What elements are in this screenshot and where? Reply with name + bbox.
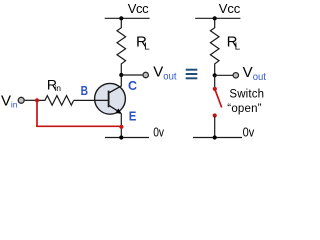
svg-text:in: in (11, 100, 18, 110)
wire base lead into Q1 (74, 99, 109, 101)
terminal Vout (right) (233, 73, 238, 78)
svg-text:L: L (144, 42, 150, 53)
label Vin (1, 92, 18, 109)
wire Vcc rail (right circuit) (195, 17, 240, 19)
svg-text:V: V (153, 64, 163, 81)
svg-text:out: out (253, 72, 266, 83)
resistor RL (left) (117, 18, 126, 75)
junction emitter / 0v rail (left) (119, 135, 123, 139)
junction RL bottom / Vout tap (left) (119, 73, 123, 77)
node red at emitter wire (119, 125, 123, 129)
svg-text:V: V (243, 64, 253, 81)
wire Vcc rail (left circuit) (105, 17, 150, 19)
value label Rin (47, 76, 61, 93)
svg-text:0v: 0v (153, 125, 164, 140)
svg-text:in: in (54, 83, 61, 93)
svg-text:Vcc: Vcc (219, 1, 241, 16)
label Vout (left) (153, 64, 177, 83)
wire tap to Vout terminal (right) (215, 74, 233, 76)
junction RL bottom / Vout tap (right) (213, 73, 217, 77)
wire 0v rail (right) (193, 137, 242, 139)
label Switch "open" (227, 89, 264, 115)
wire collector to Vout tap (120, 75, 122, 86)
terminal Vout (left) (143, 72, 148, 77)
svg-text:Switch: Switch (229, 89, 264, 101)
svg-text:0v: 0v (243, 125, 255, 140)
wire emitter to 0v rail (120, 114, 122, 138)
node input junction (red) (35, 98, 39, 102)
resistor Rin (37, 96, 74, 106)
wire tap to Vout terminal (left) (121, 74, 143, 76)
switch S1 "open" (213, 87, 222, 118)
svg-text:V: V (1, 92, 11, 109)
label Vout (right) (243, 64, 267, 83)
wire Vin terminal to input node (24, 99, 37, 101)
wire switch bottom to 0v rail (right) (214, 117, 216, 138)
svg-text:E: E (129, 109, 137, 124)
value label RL (right) (227, 33, 241, 52)
value label RL (left) (136, 33, 150, 52)
wire 0v rail (left) (105, 137, 149, 139)
equivalence symbol (186, 70, 198, 79)
junction switch / 0v rail (right) (213, 135, 217, 139)
terminal Vin (18, 97, 24, 103)
svg-text:out: out (163, 71, 176, 82)
svg-text:L: L (235, 42, 241, 53)
wire red: bottom run to emitter (36, 125, 121, 127)
junction Vcc rail / RL top (right) (213, 16, 217, 20)
wire Vout tap to switch top contact (214, 75, 216, 87)
wire red: input node down (36, 100, 38, 127)
svg-text:“open”: “open” (227, 103, 261, 115)
junction Vcc rail / RL top (left) (119, 16, 123, 20)
svg-text:C: C (128, 78, 138, 93)
resistor RL (right) (210, 18, 219, 75)
transistor Q1 (NPN) (95, 83, 126, 114)
svg-text:Vcc: Vcc (128, 1, 149, 16)
svg-text:B: B (81, 83, 88, 98)
